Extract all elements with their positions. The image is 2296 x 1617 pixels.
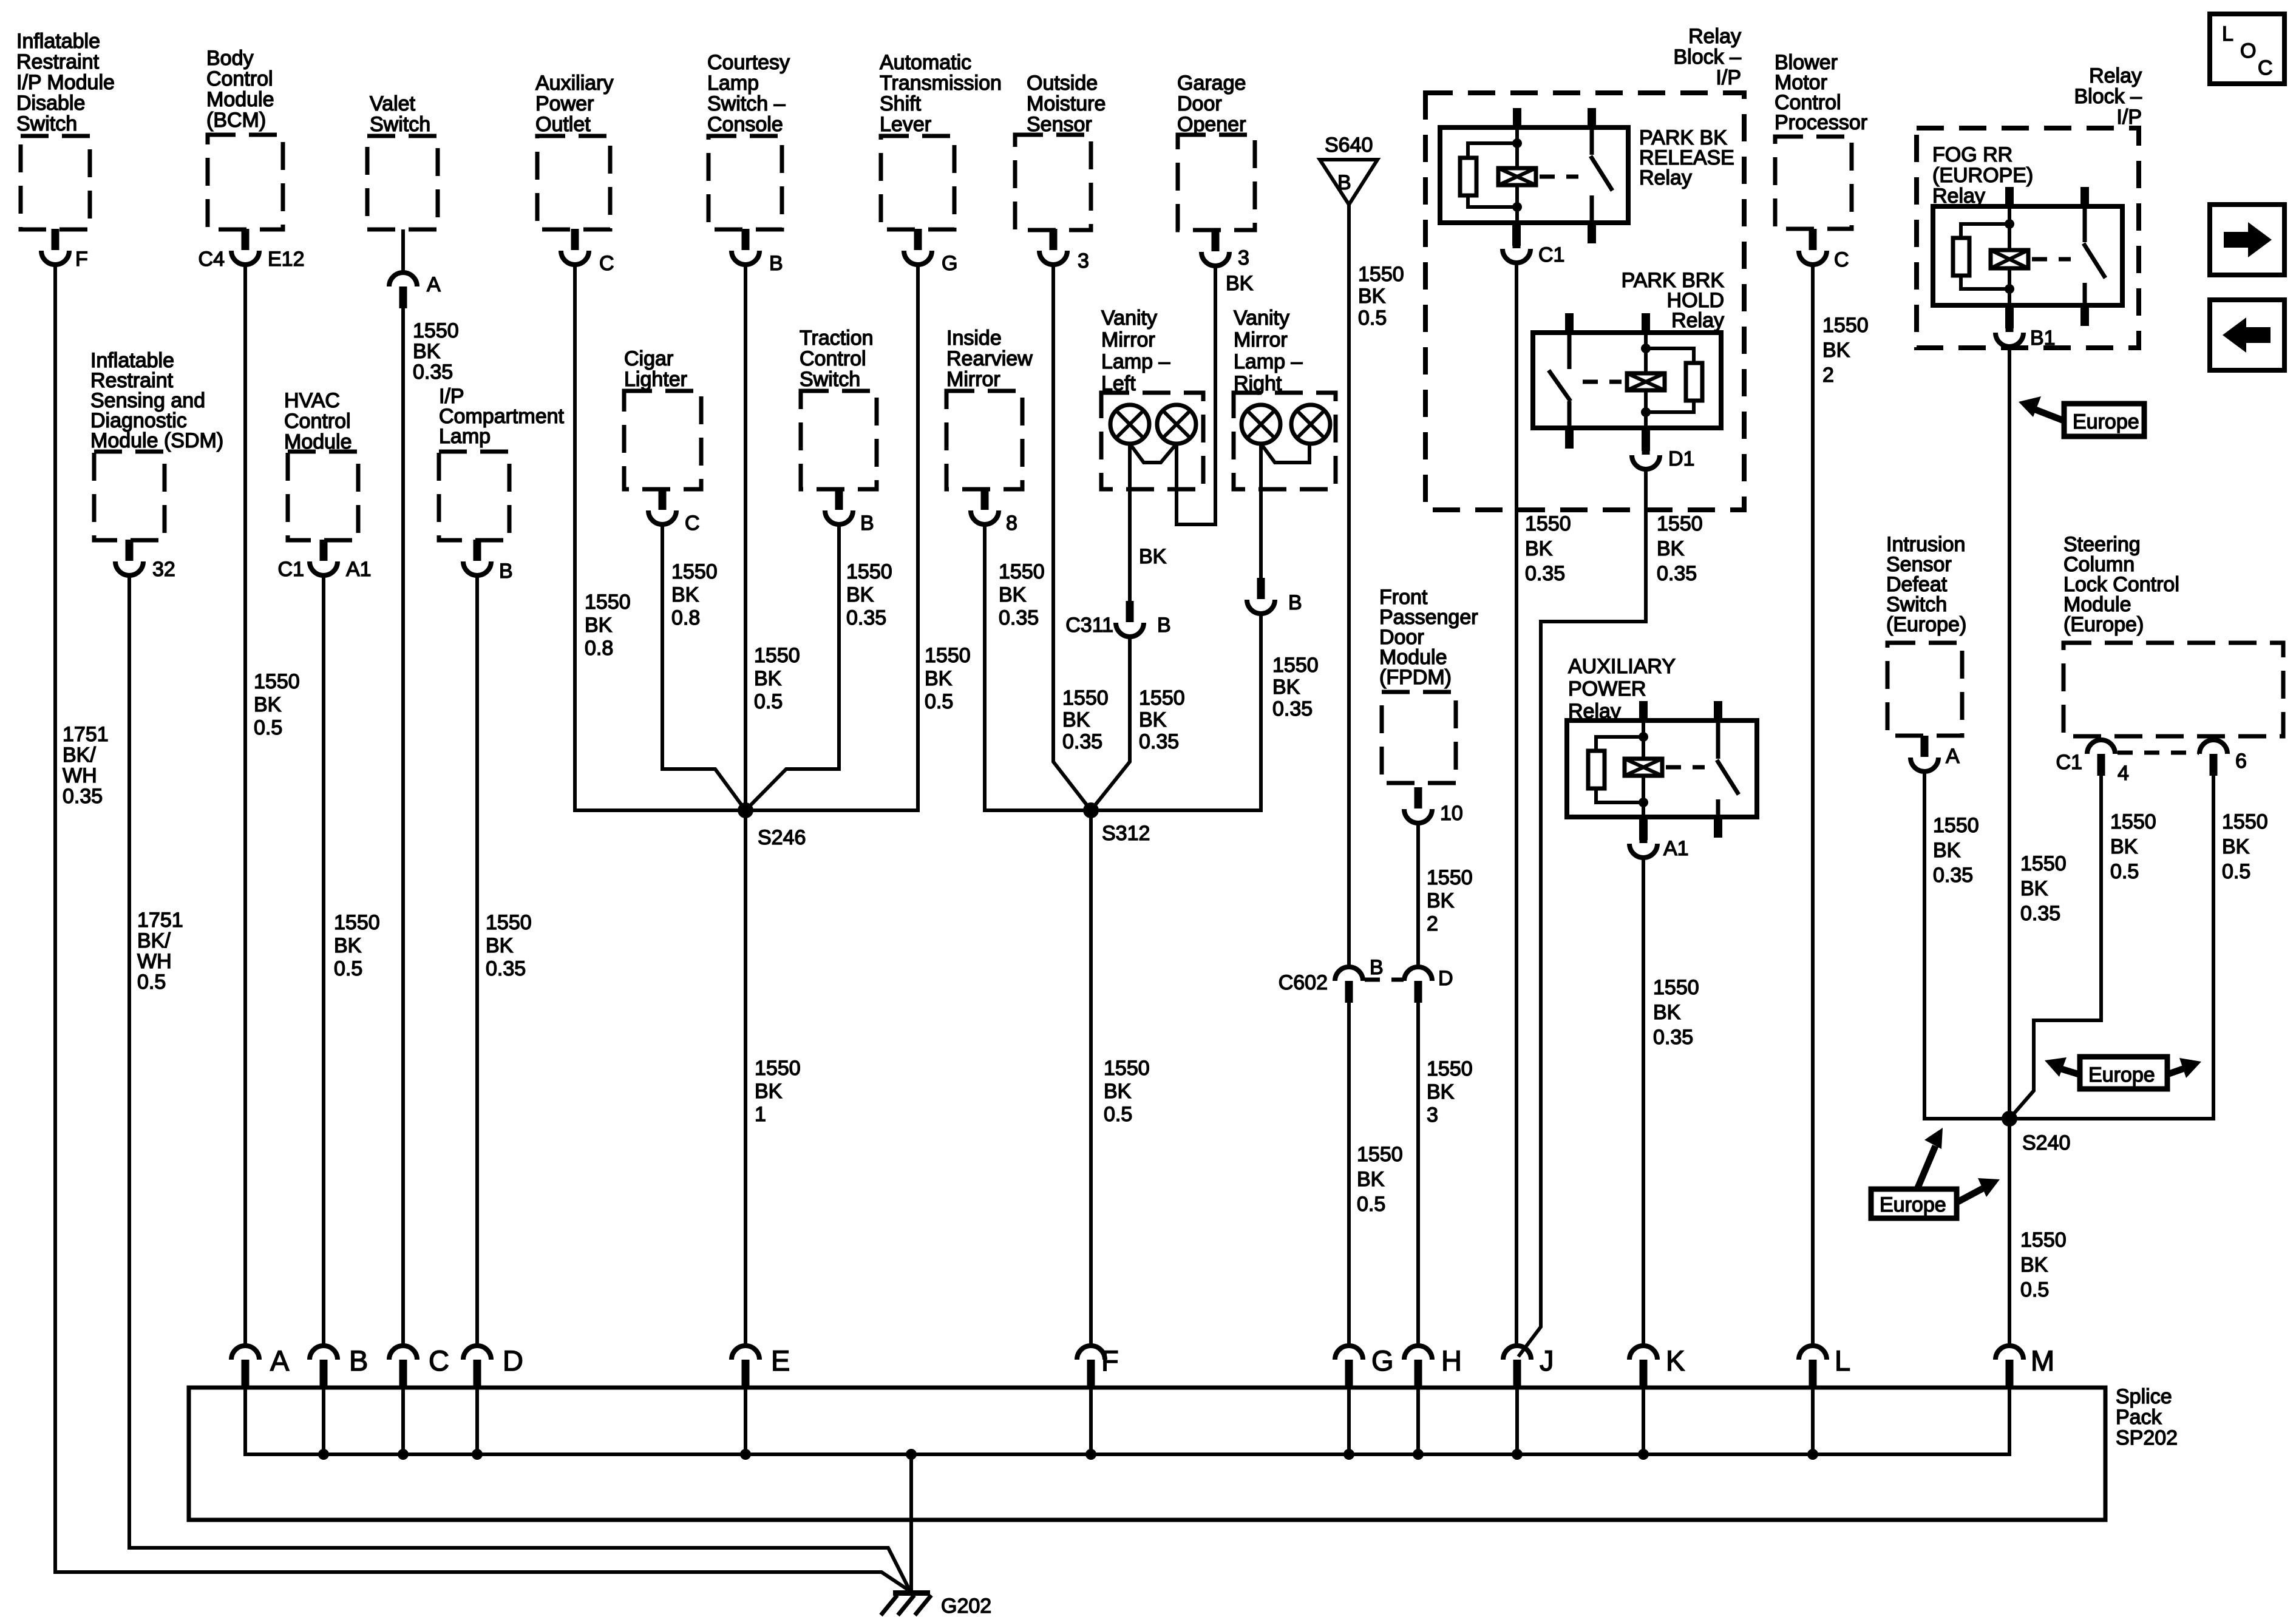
wire label 1550 BK 0.35 bbox=[486, 911, 532, 980]
svg-text:Processor: Processor bbox=[1775, 111, 1867, 134]
wire C602 D to splice H bbox=[1416, 1002, 1420, 1344]
svg-text:Europe: Europe bbox=[2073, 410, 2139, 433]
svg-text:BK: BK bbox=[1653, 1001, 1681, 1024]
svg-text:C311: C311 bbox=[1065, 614, 1113, 637]
connector pin A intrusion bbox=[1911, 736, 1960, 771]
svg-text:BK: BK bbox=[254, 693, 282, 716]
splice connector M bbox=[1995, 1344, 2054, 1389]
connector pin 8 bbox=[971, 489, 1017, 535]
connector C1 pin 4 steering bbox=[2056, 740, 2129, 785]
svg-text:Vanity: Vanity bbox=[1234, 307, 1289, 330]
svg-text:(FPDM): (FPDM) bbox=[1379, 666, 1452, 689]
svg-text:Opener: Opener bbox=[1177, 113, 1246, 136]
svg-text:I/P: I/P bbox=[1716, 66, 1741, 89]
connector C602 link dashes bbox=[1365, 978, 1404, 982]
module Inside Rearview Mirror box bbox=[946, 391, 1022, 489]
wire label 1550 BK 0.8 bbox=[585, 591, 631, 660]
connector pins C4 E12 bbox=[199, 229, 305, 271]
svg-text:Cigar: Cigar bbox=[624, 347, 673, 370]
svg-text:1550: 1550 bbox=[2020, 1229, 2067, 1252]
lamp vanity left 2 bbox=[1157, 405, 1196, 444]
relay AUXILIARY POWER coil bbox=[1625, 720, 1662, 817]
svg-text:Body: Body bbox=[206, 47, 254, 70]
relay FOG RR dashed link bbox=[2032, 257, 2071, 262]
svg-text:0.5: 0.5 bbox=[1358, 307, 1387, 330]
svg-text:1751: 1751 bbox=[137, 909, 183, 932]
svg-text:G: G bbox=[942, 252, 957, 275]
relay FOG RR coil bbox=[1991, 206, 2028, 305]
svg-text:Inflatable: Inflatable bbox=[16, 30, 100, 53]
relay AUXILIARY POWER box bbox=[1567, 720, 1757, 817]
lamp vanity left 1 bbox=[1110, 405, 1149, 444]
relay FOG RR box bbox=[1933, 206, 2122, 305]
wire FPDM 10 to C602 D bbox=[1416, 821, 1420, 966]
connector C602 pin B bbox=[1279, 956, 1384, 1003]
svg-text:1550: 1550 bbox=[754, 644, 800, 667]
module Steering Column Lock Control Module label bbox=[2063, 533, 2179, 636]
icon LOC box bbox=[2210, 14, 2284, 84]
wire label 1550 BK 0.35 bbox=[1272, 654, 1319, 720]
svg-text:BK: BK bbox=[754, 667, 782, 690]
relay AUXILIARY POWER resistor bbox=[1588, 737, 1643, 802]
module Valet Switch label bbox=[370, 92, 430, 136]
svg-text:10: 10 bbox=[1440, 802, 1463, 825]
module Body Control Module (BCM) label bbox=[206, 47, 274, 132]
wire A1 to splice K bbox=[1642, 856, 1645, 1344]
svg-text:Relay: Relay bbox=[1671, 309, 1724, 332]
svg-text:BK: BK bbox=[1357, 1168, 1385, 1191]
connector C1 pin 6 steering bbox=[2199, 740, 2247, 776]
relay FOG RR terminal stubs bbox=[2005, 187, 2089, 326]
svg-text:1550: 1550 bbox=[1272, 654, 1319, 677]
svg-text:Lamp: Lamp bbox=[439, 425, 491, 448]
wire label 1550 BK 0.35 bbox=[413, 319, 459, 384]
wire label 1550 BK 1 bbox=[755, 1057, 801, 1126]
svg-text:Traction: Traction bbox=[800, 327, 874, 350]
wire label 1550 BK 0.8 bbox=[671, 560, 718, 629]
wire label 1550 BK 0.5 bbox=[754, 644, 800, 713]
svg-text:3: 3 bbox=[1427, 1103, 1438, 1127]
wire S312 to splice F bbox=[1089, 810, 1093, 1344]
wire label 1550 BK 0.35 bbox=[846, 560, 892, 629]
module Traction Control Switch box bbox=[801, 391, 877, 489]
svg-text:1550: 1550 bbox=[1139, 686, 1185, 710]
svg-text:Relay: Relay bbox=[1688, 25, 1741, 48]
svg-text:2: 2 bbox=[1822, 364, 1834, 387]
svg-text:0.35: 0.35 bbox=[846, 606, 886, 629]
module Auxiliary Power Outlet label bbox=[535, 72, 613, 136]
svg-text:0.35: 0.35 bbox=[2020, 902, 2060, 925]
module Intrusion Sensor Defeat Switch box bbox=[1887, 643, 1962, 736]
svg-text:SP202: SP202 bbox=[2116, 1426, 2178, 1449]
wire courtesy through S246 to splice E bbox=[744, 263, 747, 1344]
splice pack SP202 box bbox=[189, 1388, 2105, 1520]
wire label 1550 BK 0.35 bbox=[1139, 686, 1185, 753]
relay PARK BK RELEASE coil bbox=[1498, 127, 1536, 223]
svg-text:1550: 1550 bbox=[925, 644, 971, 667]
svg-text:Disable: Disable bbox=[16, 92, 85, 115]
svg-text:0.5: 0.5 bbox=[2110, 860, 2139, 883]
wire garage door opener to vanity left lamp 2 bbox=[1177, 264, 1215, 524]
Europe tag S240 wires bbox=[1871, 1128, 2000, 1218]
svg-text:1751: 1751 bbox=[63, 723, 109, 746]
wire label 1550 BK 2 bbox=[1427, 866, 1473, 935]
wire label 1550 BK 0.35 bbox=[1653, 976, 1699, 1049]
svg-text:A: A bbox=[270, 1344, 290, 1377]
svg-text:HVAC: HVAC bbox=[284, 389, 340, 412]
module SDM box bbox=[94, 452, 165, 540]
splice connector G bbox=[1335, 1344, 1394, 1389]
splice connector A bbox=[231, 1344, 290, 1389]
module Automatic Transmission Shift Lever label bbox=[880, 51, 1002, 136]
svg-text:(BCM): (BCM) bbox=[206, 109, 266, 132]
svg-text:I/P: I/P bbox=[2116, 106, 2142, 129]
svg-text:0.5: 0.5 bbox=[925, 690, 953, 713]
svg-text:Inside: Inside bbox=[946, 327, 1002, 350]
wire HVAC to splice B bbox=[322, 574, 325, 1344]
svg-text:C: C bbox=[685, 512, 700, 535]
module Traction Control Switch label bbox=[800, 327, 874, 391]
svg-text:BK: BK bbox=[1933, 839, 1961, 862]
splice connector C bbox=[389, 1344, 449, 1389]
module BCM box bbox=[208, 135, 283, 229]
svg-text:Shift: Shift bbox=[880, 92, 922, 115]
wire rearview mirror to S312 bbox=[985, 523, 1091, 810]
svg-text:0.5: 0.5 bbox=[137, 971, 166, 994]
svg-text:Control: Control bbox=[284, 410, 351, 433]
wire B1 through S240 to splice M bbox=[2008, 345, 2011, 1344]
svg-text:1550: 1550 bbox=[2110, 810, 2156, 833]
splice connector D bbox=[463, 1344, 523, 1389]
wire traction to S246 bbox=[746, 523, 839, 810]
wire label 1550 BK 0.5 bbox=[925, 644, 971, 713]
svg-text:M: M bbox=[2031, 1344, 2054, 1377]
relay PARK BRK HOLD resistor bbox=[1646, 348, 1702, 412]
module Intrusion Sensor Defeat Switch label bbox=[1886, 533, 1966, 636]
connector C602 pin D bbox=[1404, 967, 1453, 1003]
wire label 1550 BK 0.35 bbox=[2020, 852, 2067, 925]
icon arrow left box bbox=[2210, 300, 2284, 370]
wire label 1550 BK 0.35 bbox=[1062, 686, 1109, 753]
module Inside Rearview Mirror label bbox=[946, 327, 1033, 391]
module Courtesy Lamp Switch - Console label bbox=[707, 51, 790, 136]
svg-text:BK: BK bbox=[2222, 835, 2250, 858]
relay PARK BRK HOLD switch bbox=[1549, 333, 1571, 428]
svg-text:BK: BK bbox=[1822, 339, 1850, 362]
svg-text:Auxiliary: Auxiliary bbox=[535, 72, 613, 95]
svg-text:1550: 1550 bbox=[585, 591, 631, 614]
svg-text:1550: 1550 bbox=[1427, 866, 1473, 889]
svg-text:3: 3 bbox=[1078, 249, 1089, 273]
svg-text:BK: BK bbox=[999, 583, 1027, 606]
wire label 1550 BK 0.35 bbox=[1933, 814, 1979, 887]
wire label 1550 BK 0.5 splice M wire bbox=[2020, 1229, 2067, 1301]
relay PARK BRK HOLD dashed link bbox=[1583, 380, 1622, 384]
svg-text:1550: 1550 bbox=[1525, 512, 1571, 535]
module Courtesy Lamp Switch box bbox=[708, 136, 782, 229]
splice pack internal bus bbox=[245, 1389, 2009, 1454]
svg-text:E: E bbox=[771, 1344, 790, 1377]
svg-text:0.35: 0.35 bbox=[63, 785, 103, 808]
svg-text:Automatic: Automatic bbox=[880, 51, 971, 74]
svg-text:0.5: 0.5 bbox=[1104, 1103, 1132, 1126]
svg-text:B: B bbox=[1288, 591, 1302, 614]
svg-text:C602: C602 bbox=[1279, 971, 1328, 994]
svg-text:BK: BK bbox=[1657, 537, 1685, 560]
svg-text:Switch –: Switch – bbox=[707, 92, 786, 115]
lamp vanity right 2 bbox=[1291, 405, 1330, 444]
relay block IP dashed box left bbox=[1425, 93, 1744, 510]
svg-text:2: 2 bbox=[1427, 912, 1438, 935]
wire SDM 32 to ground G202 bbox=[129, 574, 911, 1592]
svg-text:8: 8 bbox=[1006, 512, 1017, 535]
ground G202 bbox=[881, 1590, 991, 1617]
svg-text:B1: B1 bbox=[2030, 327, 2056, 350]
module I/P Compartment Lamp label bbox=[439, 385, 565, 448]
svg-text:Vanity: Vanity bbox=[1101, 307, 1157, 330]
svg-text:(EUROPE): (EUROPE) bbox=[1932, 164, 2033, 187]
connector pin D1 park brk hold bbox=[1632, 428, 1694, 470]
wire cigar lighter to S246 bbox=[662, 523, 746, 810]
relay FOG RR (EUROPE) label bbox=[1932, 143, 2033, 208]
wire C602 B to splice G bbox=[1347, 1002, 1351, 1344]
svg-text:BK: BK bbox=[1358, 285, 1386, 308]
relay AUXILIARY POWER switch bbox=[1717, 720, 1739, 817]
svg-text:J: J bbox=[1540, 1344, 1554, 1377]
module Front Passenger Door Module (FPDM) label bbox=[1379, 586, 1478, 689]
relay PARK BK RELEASE resistor bbox=[1460, 143, 1517, 207]
relay PARK BK RELEASE switch bbox=[1591, 127, 1612, 223]
splice connector J bbox=[1503, 1344, 1554, 1389]
connector pins C1 A1 bbox=[278, 540, 372, 581]
svg-text:S312: S312 bbox=[1102, 822, 1150, 845]
svg-text:B: B bbox=[1370, 956, 1384, 979]
svg-text:FOG RR: FOG RR bbox=[1932, 143, 2012, 166]
svg-text:Valet: Valet bbox=[370, 92, 416, 115]
splice connector F bbox=[1077, 1344, 1119, 1389]
svg-text:C: C bbox=[599, 252, 614, 275]
splice S640 triangle bbox=[1320, 134, 1377, 205]
svg-text:C4: C4 bbox=[199, 248, 225, 271]
wire valet to splice C bbox=[401, 308, 405, 1344]
svg-text:BK: BK bbox=[585, 614, 613, 637]
svg-text:0.35: 0.35 bbox=[1653, 1026, 1693, 1049]
connector pin 32 bbox=[115, 540, 175, 581]
svg-text:(Europe): (Europe) bbox=[2063, 613, 2144, 636]
splice S246 bbox=[738, 802, 806, 849]
svg-text:Block –: Block – bbox=[1674, 46, 1742, 69]
svg-text:BK: BK bbox=[334, 934, 362, 957]
connector pin C blower bbox=[1799, 229, 1849, 271]
svg-text:Switch: Switch bbox=[800, 368, 860, 391]
splice pack label bbox=[2116, 1385, 2178, 1449]
svg-text:L: L bbox=[2222, 22, 2233, 46]
relay block IP label right bbox=[2074, 64, 2142, 129]
svg-text:BK/: BK/ bbox=[137, 929, 171, 952]
svg-text:A: A bbox=[427, 273, 441, 296]
relay PARK BK RELEASE terminal stubs bbox=[1513, 108, 1596, 243]
module Inflatable Restraint Sensing and Diagnostic Module (SDM) label bbox=[90, 349, 223, 452]
svg-text:Lamp –: Lamp – bbox=[1101, 350, 1170, 373]
relay PARK BRK HOLD coil bbox=[1627, 333, 1665, 428]
wire aux outlet to S246 bbox=[575, 263, 746, 810]
svg-text:B: B bbox=[1337, 171, 1351, 194]
wire splice pack to ground bbox=[909, 1454, 913, 1593]
wire valet box to connector A bbox=[401, 229, 405, 273]
svg-text:Module (SDM): Module (SDM) bbox=[90, 429, 223, 452]
wire label 1550 BK 0.5 bbox=[2222, 810, 2268, 883]
module Vanity Mirror Lamp - Right box bbox=[1234, 393, 1336, 489]
svg-text:0.5: 0.5 bbox=[2020, 1278, 2049, 1301]
svg-text:Outlet: Outlet bbox=[535, 113, 591, 136]
svg-text:WH: WH bbox=[137, 950, 172, 973]
svg-text:L: L bbox=[1835, 1344, 1850, 1377]
wire vanity left lamp bridge bbox=[1130, 444, 1177, 463]
svg-text:G202: G202 bbox=[941, 1595, 991, 1617]
module Outside Moisture Sensor label bbox=[1027, 72, 1106, 136]
module Automatic Transmission Shift Lever box bbox=[881, 136, 954, 229]
svg-text:Pack: Pack bbox=[2116, 1406, 2162, 1429]
svg-text:Switch: Switch bbox=[370, 113, 430, 136]
wire label 1550 BK 0.5 bbox=[1104, 1057, 1150, 1126]
svg-text:Module: Module bbox=[206, 88, 274, 111]
wire steering pin 4 to S240 bbox=[2009, 775, 2101, 1119]
svg-text:BK: BK bbox=[2020, 877, 2048, 900]
relay AUXILIARY POWER label bbox=[1568, 655, 1676, 723]
splice pack bus junction dots bbox=[318, 1449, 1818, 1460]
svg-text:BK: BK bbox=[1139, 708, 1167, 731]
svg-text:Console: Console bbox=[707, 113, 783, 136]
svg-text:D: D bbox=[1438, 967, 1453, 990]
module HVAC box bbox=[288, 452, 358, 540]
module Blower Motor Control Processor box bbox=[1775, 137, 1852, 229]
svg-text:K: K bbox=[1666, 1344, 1685, 1377]
module Cigar Lighter label bbox=[624, 347, 687, 391]
relay block IP label left bbox=[1674, 25, 1742, 89]
svg-text:Power: Power bbox=[535, 92, 594, 115]
svg-text:Lever: Lever bbox=[880, 113, 931, 136]
svg-text:0.5: 0.5 bbox=[1357, 1193, 1385, 1216]
svg-text:BK: BK bbox=[1139, 545, 1167, 568]
svg-text:1550: 1550 bbox=[2222, 810, 2268, 833]
svg-text:1550: 1550 bbox=[1822, 314, 1869, 337]
relay AUXILIARY POWER terminal stubs bbox=[1639, 701, 1722, 838]
splice connector K bbox=[1629, 1344, 1685, 1389]
wire label 1550 BK 2 bbox=[1822, 314, 1869, 387]
connector pin B courtesy bbox=[732, 229, 783, 275]
module HVAC Control Module label bbox=[284, 389, 352, 453]
svg-text:Mirror: Mirror bbox=[1101, 328, 1155, 351]
module Cigar Lighter box bbox=[624, 391, 701, 489]
svg-text:B: B bbox=[1157, 614, 1171, 637]
relay PARK BRK HOLD terminal stubs bbox=[1565, 313, 1650, 449]
svg-text:AUXILIARY: AUXILIARY bbox=[1568, 655, 1676, 678]
svg-text:Mirror: Mirror bbox=[946, 368, 1000, 391]
svg-text:B: B bbox=[860, 512, 874, 535]
svg-text:32: 32 bbox=[152, 558, 175, 581]
relay FOG RR resistor bbox=[1953, 224, 2009, 289]
connector pin B vanity right bbox=[1247, 578, 1302, 614]
wire steering pin 6 to S240 bbox=[2009, 775, 2213, 1119]
svg-text:1550: 1550 bbox=[671, 560, 718, 583]
svg-text:Moisture: Moisture bbox=[1027, 92, 1106, 115]
module Outside Moisture Sensor box bbox=[1015, 135, 1091, 230]
svg-text:Door: Door bbox=[1177, 92, 1222, 115]
svg-text:O: O bbox=[2240, 39, 2256, 63]
module Blower Motor Control Processor label bbox=[1775, 51, 1867, 134]
svg-text:BK: BK bbox=[1427, 1080, 1455, 1103]
svg-text:1550: 1550 bbox=[999, 560, 1045, 583]
wire C1 to splice J bbox=[1515, 261, 1518, 1344]
svg-text:3: 3 bbox=[1238, 246, 1249, 269]
svg-text:Relay: Relay bbox=[2089, 64, 2142, 87]
svg-text:Lighter: Lighter bbox=[624, 368, 687, 391]
wire shift lever to S246 bbox=[746, 263, 918, 810]
svg-text:1550: 1550 bbox=[1653, 976, 1699, 999]
svg-text:1550: 1550 bbox=[1657, 512, 1703, 535]
svg-text:C: C bbox=[2258, 56, 2273, 80]
connector C311 pin B bbox=[1065, 601, 1170, 637]
svg-text:1550: 1550 bbox=[413, 319, 459, 342]
splice connector B bbox=[310, 1344, 368, 1389]
wire moisture sensor to S312 bbox=[1053, 263, 1091, 810]
module Vanity Mirror Lamp - Right label bbox=[1234, 307, 1302, 395]
svg-text:Mirror: Mirror bbox=[1234, 328, 1288, 351]
svg-text:(Europe): (Europe) bbox=[1886, 613, 1966, 636]
connector pin 3 garage door opener bbox=[1201, 230, 1249, 269]
svg-text:BK: BK bbox=[671, 583, 699, 606]
connector pin C cigar bbox=[648, 489, 700, 535]
svg-text:BK: BK bbox=[1525, 537, 1553, 560]
svg-text:Block –: Block – bbox=[2074, 85, 2142, 108]
svg-text:BK: BK bbox=[486, 934, 514, 957]
svg-text:0.5: 0.5 bbox=[2222, 860, 2250, 883]
connector pin B1 fog relay bbox=[1995, 305, 2056, 350]
relay FOG RR switch bbox=[2084, 206, 2105, 305]
svg-text:1550: 1550 bbox=[2020, 852, 2067, 875]
svg-text:B: B bbox=[769, 252, 783, 275]
wire label 1550 BK 3 bbox=[1427, 1057, 1473, 1127]
relay block IP dashed box right bbox=[1917, 128, 2139, 348]
wire label 1550 BK 0.5 bbox=[2110, 810, 2156, 883]
svg-text:S246: S246 bbox=[758, 826, 806, 849]
relay PARK BK RELEASE dashed link bbox=[1540, 175, 1578, 179]
connector pin G bbox=[904, 229, 957, 275]
wire C311 to S312 bbox=[1091, 635, 1130, 810]
wire BCM to splice A bbox=[243, 263, 247, 1344]
wire label 1550 BK 0.5 bbox=[254, 670, 300, 739]
svg-text:6: 6 bbox=[2235, 750, 2247, 773]
svg-text:0.35: 0.35 bbox=[1933, 864, 1973, 887]
module Inflatable Restraint I/P Module Disable Switch box bbox=[21, 136, 90, 229]
wire S640 to C602 pin B bbox=[1347, 205, 1351, 966]
svg-text:1550: 1550 bbox=[1357, 1143, 1403, 1166]
connector pin B traction bbox=[825, 489, 874, 535]
svg-text:1550: 1550 bbox=[755, 1057, 801, 1080]
relay AUXILIARY POWER dashed link bbox=[1666, 765, 1705, 770]
svg-text:BK: BK bbox=[413, 340, 441, 363]
svg-text:BK: BK bbox=[846, 583, 874, 606]
svg-text:C: C bbox=[1834, 248, 1849, 271]
svg-text:0.5: 0.5 bbox=[754, 690, 783, 713]
module Auxiliary Power Outlet box bbox=[537, 136, 610, 229]
svg-text:Control: Control bbox=[206, 67, 273, 90]
svg-text:0.8: 0.8 bbox=[671, 606, 700, 629]
wire label 1751 BK/ WH 0.5 bbox=[137, 909, 183, 994]
module Steering Column Lock Control Module box bbox=[2063, 643, 2283, 736]
svg-text:Sensor: Sensor bbox=[1027, 113, 1092, 136]
svg-text:A: A bbox=[1946, 745, 1960, 768]
